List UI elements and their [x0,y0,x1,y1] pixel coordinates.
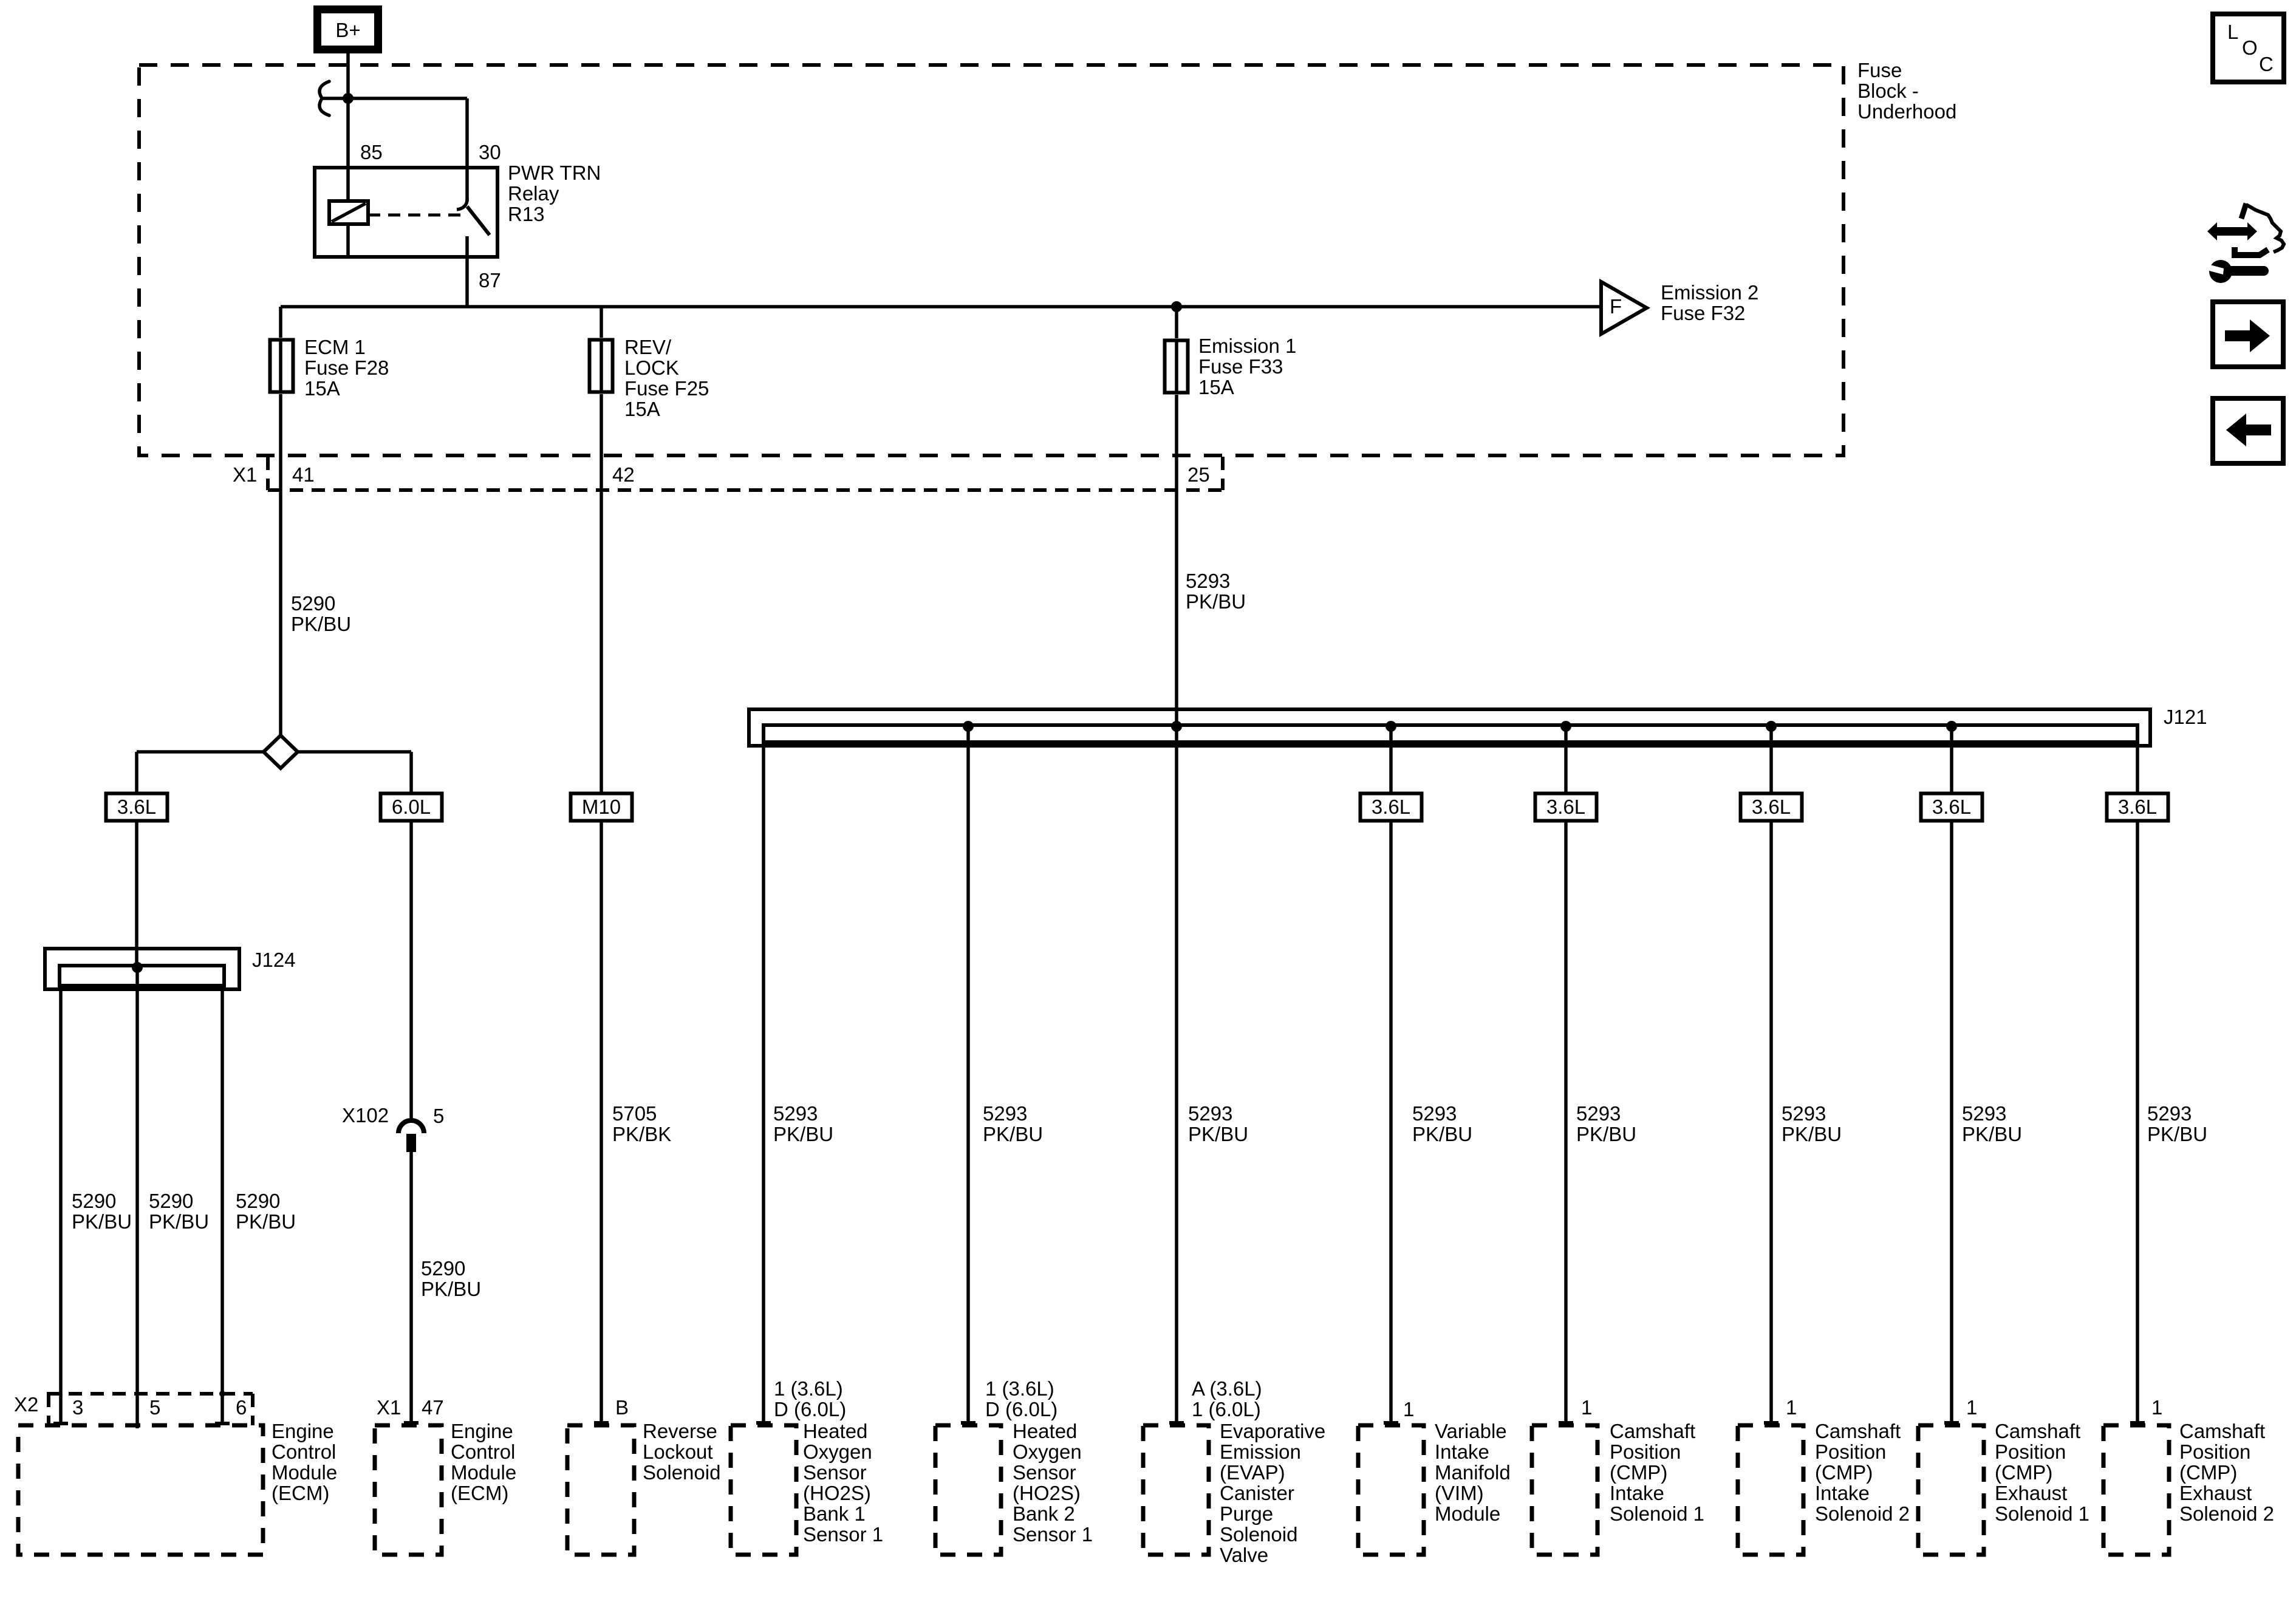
svg-text:5290: 5290 [72,1190,116,1212]
svg-text:5290: 5290 [421,1257,465,1280]
svg-text:30: 30 [479,141,501,163]
svg-text:15A: 15A [304,377,340,400]
svg-text:PK/BU: PK/BU [773,1123,833,1145]
svg-text:15A: 15A [624,398,660,420]
svg-text:PK/BU: PK/BU [1186,590,1246,613]
svg-text:Oxygen: Oxygen [803,1440,872,1463]
svg-text:Engine: Engine [451,1420,513,1442]
svg-text:Valve: Valve [1220,1544,1268,1566]
svg-text:Camshaft: Camshaft [1815,1420,1901,1442]
svg-text:Emission 1: Emission 1 [1198,335,1296,357]
svg-text:Sensor 1: Sensor 1 [803,1523,883,1546]
svg-text:47: 47 [422,1396,444,1419]
svg-text:Camshaft: Camshaft [1610,1420,1695,1442]
svg-text:5705: 5705 [612,1102,657,1125]
svg-text:1 (6.0L): 1 (6.0L) [1192,1398,1261,1420]
svg-text:3.6L: 3.6L [1932,796,1971,818]
svg-text:PK/BU: PK/BU [1412,1123,1472,1145]
svg-text:Fuse F25: Fuse F25 [624,377,709,400]
svg-text:5290: 5290 [291,592,335,615]
svg-text:R13: R13 [508,203,545,225]
svg-text:D (6.0L): D (6.0L) [774,1398,846,1420]
svg-text:L: L [2227,21,2238,43]
svg-text:5293: 5293 [1782,1102,1826,1125]
svg-text:Intake: Intake [1435,1440,1489,1463]
svg-text:3.6L: 3.6L [2118,796,2157,818]
svg-text:Solenoid 2: Solenoid 2 [2179,1502,2274,1525]
svg-text:PK/BU: PK/BU [236,1210,296,1233]
svg-text:5293: 5293 [2147,1102,2192,1125]
svg-text:Canister: Canister [1220,1482,1294,1504]
svg-text:Engine: Engine [272,1420,334,1442]
svg-text:42: 42 [612,463,635,486]
svg-text:5: 5 [433,1105,444,1127]
svg-text:Fuse F28: Fuse F28 [304,356,389,379]
svg-text:Intake: Intake [1815,1482,1870,1504]
svg-text:Solenoid 1: Solenoid 1 [1995,1502,2089,1525]
svg-text:5293: 5293 [1576,1102,1621,1125]
svg-text:5293: 5293 [1188,1102,1232,1125]
svg-text:Purge: Purge [1220,1502,1273,1525]
svg-text:X1: X1 [377,1396,401,1419]
svg-text:Emission 2: Emission 2 [1661,281,1758,304]
svg-text:5: 5 [149,1396,160,1419]
svg-text:5293: 5293 [1412,1102,1457,1125]
svg-text:6: 6 [236,1396,247,1419]
svg-text:Bank 1: Bank 1 [803,1502,866,1525]
svg-text:PK/BU: PK/BU [1962,1123,2022,1145]
svg-text:Position: Position [1610,1440,1681,1463]
svg-text:M10: M10 [582,796,621,818]
svg-text:PK/BU: PK/BU [1188,1123,1248,1145]
svg-text:Exhaust: Exhaust [2179,1482,2252,1504]
svg-text:Camshaft: Camshaft [2179,1420,2265,1442]
svg-text:Bank 2: Bank 2 [1013,1502,1075,1525]
svg-text:Solenoid: Solenoid [1220,1523,1297,1546]
svg-text:15A: 15A [1198,376,1234,398]
svg-text:Fuse F32: Fuse F32 [1661,302,1745,324]
svg-text:Position: Position [1815,1440,1886,1463]
svg-text:5293: 5293 [983,1102,1027,1125]
svg-text:Heated: Heated [803,1420,867,1442]
svg-text:PK/BU: PK/BU [421,1278,481,1300]
svg-text:Intake: Intake [1610,1482,1664,1504]
svg-text:ECM 1: ECM 1 [304,336,366,358]
svg-text:1: 1 [1581,1396,1592,1419]
svg-text:(CMP): (CMP) [1815,1461,1873,1484]
svg-text:5290: 5290 [149,1190,193,1212]
svg-text:1 (3.6L): 1 (3.6L) [985,1377,1054,1400]
svg-text:(ECM): (ECM) [451,1482,508,1504]
svg-text:PWR TRN: PWR TRN [508,162,601,184]
svg-text:C: C [2259,53,2274,75]
svg-text:1: 1 [1966,1396,1977,1419]
svg-text:Fuse F33: Fuse F33 [1198,355,1283,378]
svg-text:(EVAP): (EVAP) [1220,1461,1285,1484]
svg-text:X102: X102 [342,1104,389,1127]
svg-text:D (6.0L): D (6.0L) [985,1398,1057,1420]
svg-text:Sensor: Sensor [803,1461,867,1484]
svg-text:3.6L: 3.6L [1752,796,1791,818]
svg-text:PK/BU: PK/BU [983,1123,1043,1145]
svg-text:J124: J124 [252,949,296,971]
svg-text:3.6L: 3.6L [1546,796,1585,818]
svg-text:Module: Module [1435,1502,1500,1525]
svg-text:Underhood: Underhood [1857,100,1956,123]
svg-text:1: 1 [1403,1398,1414,1420]
svg-text:X2: X2 [14,1393,38,1416]
svg-text:85: 85 [360,141,383,163]
svg-text:PK/BU: PK/BU [2147,1123,2207,1145]
svg-text:PK/BK: PK/BK [612,1123,671,1145]
svg-text:(CMP): (CMP) [2179,1461,2237,1484]
svg-text:PK/BU: PK/BU [72,1210,132,1233]
svg-text:Evaporative: Evaporative [1220,1420,1325,1442]
svg-text:3.6L: 3.6L [1372,796,1410,818]
svg-text:O: O [2242,36,2258,59]
svg-text:Fuse: Fuse [1857,59,1902,81]
svg-text:Relay: Relay [508,182,559,205]
svg-text:(ECM): (ECM) [272,1482,329,1504]
svg-text:(HO2S): (HO2S) [1013,1482,1081,1504]
svg-text:F: F [1610,295,1622,318]
svg-text:LOCK: LOCK [624,356,679,379]
svg-text:PK/BU: PK/BU [1782,1123,1842,1145]
svg-text:Camshaft: Camshaft [1995,1420,2080,1442]
svg-text:X1: X1 [233,463,257,486]
svg-text:A (3.6L): A (3.6L) [1192,1377,1262,1400]
svg-text:Reverse: Reverse [643,1420,717,1442]
svg-text:(CMP): (CMP) [1995,1461,2052,1484]
svg-text:Solenoid 2: Solenoid 2 [1815,1502,1910,1525]
svg-text:Exhaust: Exhaust [1995,1482,2067,1504]
svg-text:Position: Position [2179,1440,2250,1463]
svg-text:5293: 5293 [1962,1102,2006,1125]
svg-text:Solenoid 1: Solenoid 1 [1610,1502,1704,1525]
svg-text:(VIM): (VIM) [1435,1482,1484,1504]
svg-text:Module: Module [451,1461,516,1484]
svg-text:3: 3 [72,1396,83,1419]
svg-text:Module: Module [272,1461,337,1484]
svg-text:Control: Control [451,1440,515,1463]
svg-text:Solenoid: Solenoid [643,1461,720,1484]
svg-text:5293: 5293 [773,1102,818,1125]
svg-text:J121: J121 [2164,706,2207,728]
svg-text:87: 87 [479,269,501,291]
svg-text:(HO2S): (HO2S) [803,1482,871,1504]
svg-text:6.0L: 6.0L [392,796,431,818]
svg-text:1 (3.6L): 1 (3.6L) [774,1377,843,1400]
svg-text:B+: B+ [335,19,360,41]
svg-text:Control: Control [272,1440,336,1463]
svg-text:1: 1 [1786,1396,1797,1419]
svg-text:1: 1 [2151,1396,2162,1419]
svg-text:25: 25 [1187,463,1210,486]
svg-text:Heated: Heated [1013,1420,1077,1442]
svg-text:5290: 5290 [236,1190,280,1212]
svg-text:Block -: Block - [1857,80,1919,102]
svg-text:PK/BU: PK/BU [1576,1123,1636,1145]
svg-text:Position: Position [1995,1440,2066,1463]
svg-text:PK/BU: PK/BU [149,1210,209,1233]
svg-text:Variable: Variable [1435,1420,1507,1442]
svg-text:Sensor 1: Sensor 1 [1013,1523,1093,1546]
svg-text:REV/: REV/ [624,336,672,358]
svg-text:Emission: Emission [1220,1440,1301,1463]
svg-text:5293: 5293 [1186,570,1230,592]
svg-text:Manifold: Manifold [1435,1461,1511,1484]
svg-text:B: B [615,1396,629,1419]
svg-text:41: 41 [292,463,315,486]
svg-text:PK/BU: PK/BU [291,613,351,635]
svg-text:Sensor: Sensor [1013,1461,1076,1484]
svg-text:3.6L: 3.6L [117,796,156,818]
svg-text:Lockout: Lockout [643,1440,713,1463]
svg-text:Oxygen: Oxygen [1013,1440,1082,1463]
svg-text:(CMP): (CMP) [1610,1461,1667,1484]
